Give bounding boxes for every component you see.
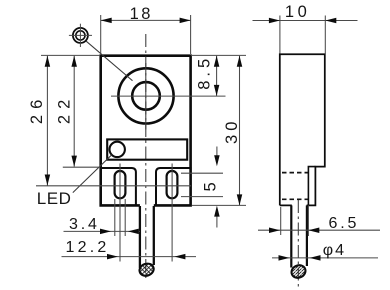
recess top extension line left <box>63 166 100 168</box>
svg-text:5: 5 <box>202 182 220 191</box>
dim 22 line <box>73 56 75 167</box>
side body outline <box>280 54 325 205</box>
dim 26 top arrow <box>45 56 51 67</box>
sensing face symbol crosshair horizontal <box>69 34 92 36</box>
dim 3.4 right arrow <box>128 229 139 235</box>
sensing face symbol inner circle <box>76 31 85 40</box>
dim 18 line <box>101 19 191 21</box>
LED window rectangle <box>107 139 187 159</box>
svg-text:8.5: 8.5 <box>195 55 213 90</box>
body top extension line right (for 8.5 and 30) <box>191 54 246 56</box>
slot bottom extension line right (for 5) <box>181 196 223 198</box>
circle horizontal centerline (also 8.5 extension) <box>111 95 226 97</box>
slot horizontal centerline (26 reference) <box>36 185 191 187</box>
side inner edge line <box>308 167 315 206</box>
dim 30 bottom arrow <box>237 194 243 205</box>
left slot center vertical extension <box>119 164 121 262</box>
left mounting slot <box>115 171 126 198</box>
side cable end ellipse <box>290 263 308 280</box>
dim 12.2 left arrow <box>107 254 118 260</box>
dim 10 left arrow <box>269 18 280 24</box>
slot edge extension left <box>114 199 116 236</box>
front cable end ellipse <box>138 262 156 278</box>
dim phi4 left arrow <box>279 255 290 261</box>
dim 8.5 top arrow <box>214 56 220 67</box>
dim 12.2 line <box>62 256 197 258</box>
dim 10 right arrow <box>325 18 336 24</box>
slot edge extension right <box>124 199 126 236</box>
front cable right edge <box>153 206 155 265</box>
dim 22 bottom arrow <box>71 156 77 167</box>
dim 5 lower line and arrow <box>216 214 218 228</box>
dim 12.2 right arrow <box>174 254 185 260</box>
front centerline vertical <box>145 34 147 281</box>
svg-text:3.4: 3.4 <box>69 216 100 233</box>
body bottom extension line right (for 30) <box>192 204 246 206</box>
right mounting slot <box>167 171 178 198</box>
dim 18 right arrow <box>180 18 191 24</box>
body top extension line left <box>41 54 100 56</box>
dim phi4 right arrow <box>310 255 321 261</box>
dim 3.4 line <box>64 230 141 232</box>
dim 26 line <box>46 56 48 186</box>
LED lamp circle <box>110 142 125 157</box>
sensing coil inner circle <box>132 82 160 110</box>
dim phi4 line <box>272 257 378 259</box>
side hidden edge dashes lower <box>282 198 308 200</box>
svg-text:18: 18 <box>130 5 153 23</box>
dim 10 line <box>253 20 358 22</box>
left recess outline <box>101 168 136 205</box>
dim 6.5 extension line right <box>307 205 309 236</box>
dim 8.5 bottom arrow <box>214 85 220 96</box>
dim 6.5 right arrow <box>308 227 319 233</box>
dim 6.5 line <box>258 229 380 231</box>
right recess outline <box>156 168 191 205</box>
dim 18 left arrow <box>101 18 112 24</box>
front cable left edge <box>139 206 141 268</box>
sensing face leader line <box>86 41 132 80</box>
dim 3.4 left arrow <box>100 229 111 235</box>
sensing face symbol crosshair vertical <box>79 24 81 47</box>
dim 22 top arrow <box>71 56 77 67</box>
side cable left edge <box>290 205 292 267</box>
side cable right edge <box>306 205 308 266</box>
svg-text:22: 22 <box>56 94 74 124</box>
svg-text:LED: LED <box>37 189 72 208</box>
dim 26 bottom arrow <box>45 175 51 186</box>
slot top extension line right (for 5) <box>181 172 223 174</box>
sensing coil outer circle <box>118 68 173 123</box>
dim 6.5 left arrow <box>269 227 280 233</box>
circle vertical crosshair <box>145 63 147 130</box>
side hidden edge dashes upper <box>282 172 308 174</box>
dim 10 extension lines <box>279 16 281 54</box>
side centerline <box>297 200 299 287</box>
svg-text:26: 26 <box>28 94 46 124</box>
svg-text:30: 30 <box>223 118 241 144</box>
dim 18 extension lines <box>100 15 102 54</box>
front body outline <box>101 56 191 206</box>
right slot center vertical extension <box>171 164 173 262</box>
svg-text:10: 10 <box>285 3 310 21</box>
dim 5 upper line and arrow <box>216 147 218 159</box>
dim 30 top arrow <box>237 56 243 67</box>
dim 8.5 line <box>216 56 218 96</box>
svg-text:φ4: φ4 <box>323 242 346 259</box>
LED leader line <box>73 155 112 193</box>
dim 30 line <box>239 56 241 206</box>
svg-text:12.2: 12.2 <box>66 239 110 256</box>
dim 6.5 extension line left <box>280 207 282 235</box>
svg-text:6.5: 6.5 <box>329 215 360 232</box>
sensing face symbol outer circle <box>73 28 88 43</box>
